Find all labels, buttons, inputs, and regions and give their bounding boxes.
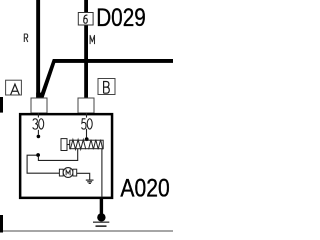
hold-in winding zigzag <box>89 140 103 150</box>
pull-in winding zigzag <box>70 140 86 150</box>
wire M lower segment <box>84 25 88 98</box>
terminal 30 label <box>33 119 44 129</box>
wire merge wedge at terminal A <box>36 93 43 98</box>
connector D029 pin 6 box <box>78 13 93 26</box>
terminal 30 stub lower <box>37 130 39 135</box>
internal ground symbol <box>86 179 94 181</box>
ground bar 2 <box>96 225 107 227</box>
terminal 50 wire down <box>86 129 88 138</box>
wire R (battery feed, left vertical) <box>36 0 40 98</box>
horizontal wire to ignition switch <box>53 59 173 63</box>
terminal A pin box <box>31 98 47 113</box>
contact dot common <box>36 153 40 157</box>
hold-in winding ground drop <box>101 149 103 198</box>
wire common to left <box>27 155 59 173</box>
junction dot 50/coil <box>85 137 89 141</box>
left margin mark lower <box>0 215 3 233</box>
wire common down to pull-in winding <box>38 149 77 161</box>
motor ground wire <box>77 173 90 180</box>
solenoid plunger block <box>61 139 67 151</box>
relay box A020 (starter motor outline) <box>20 114 112 198</box>
svg-text:D029: D029 <box>96 3 146 31</box>
plunger link <box>67 144 70 146</box>
contact dot 30 <box>37 135 41 139</box>
label box A <box>6 80 22 95</box>
ground bar 1 <box>93 221 109 223</box>
svg-text:A020: A020 <box>120 174 169 202</box>
diagonal wire <box>39 59 57 98</box>
label box B <box>98 79 115 95</box>
motor brush right <box>73 169 77 176</box>
wire label R <box>24 34 28 42</box>
solenoid winding outline <box>70 140 104 149</box>
wire M (ignition feed, middle vertical upper) <box>84 0 88 13</box>
terminal 30 stub upper <box>37 113 39 118</box>
motor M1 <box>63 168 73 178</box>
page rule line <box>0 230 173 231</box>
terminal B pin box <box>78 98 94 113</box>
left margin mark upper <box>0 97 3 113</box>
external ground wire <box>100 199 103 215</box>
terminal 50 stub upper <box>86 113 88 118</box>
ground node dot <box>97 213 105 221</box>
motor brush left <box>59 169 63 176</box>
terminal 50 label <box>82 119 93 129</box>
wire label M <box>90 35 94 44</box>
